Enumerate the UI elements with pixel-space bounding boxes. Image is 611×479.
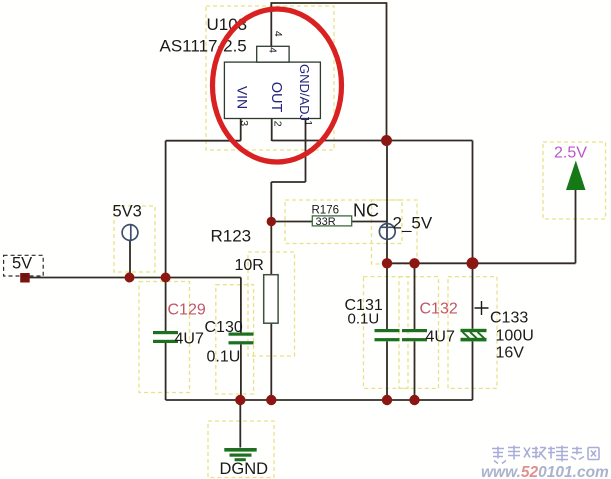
regulator U103 body (224, 46, 320, 118)
wire C132 bottom lead (414, 341, 416, 400)
svg-text:100U: 100U (496, 328, 534, 345)
node ground rail / R123 junction (266, 395, 276, 405)
node B junction R123/R176 (267, 217, 276, 226)
wire VIN horizontal (166, 140, 241, 142)
selection box C129 (139, 282, 190, 393)
wire pin2 stem (271, 119, 273, 142)
wire VIN vertical to 5V rail (165, 141, 167, 278)
wire node A branch down x472 (472, 141, 474, 264)
svg-text:NC: NC (353, 201, 379, 221)
svg-text:AS1117-2.5: AS1117-2.5 (160, 37, 247, 56)
power symbol 2.5V arrow (566, 161, 586, 191)
svg-text:0.1U: 0.1U (207, 349, 241, 366)
node 5V rail / 5V3 junction (125, 273, 135, 283)
wire ADJ step vertical to node B (270, 182, 272, 222)
node 5V rail / VIN junction (161, 273, 171, 283)
svg-text:5V: 5V (12, 255, 32, 273)
svg-text:1: 1 (302, 120, 314, 126)
resistor R176 body (312, 216, 351, 226)
wire 2_5V vertical x387 (386, 141, 388, 264)
svg-text:16V: 16V (496, 345, 525, 362)
svg-text:OUT: OUT (268, 82, 284, 113)
wire 5V rail (30, 277, 241, 279)
selection box 2_5V port (372, 200, 418, 264)
ground DGND (224, 448, 256, 461)
selection box R176 (285, 200, 402, 244)
svg-text:GND/ADJ: GND/ADJ (297, 64, 312, 121)
svg-text:2.5V: 2.5V (554, 145, 587, 162)
wire node A vertical drop (386, 2, 388, 140)
svg-text:0.1U: 0.1U (348, 311, 380, 328)
wire OUT/ADJ horizontal y140 (272, 140, 473, 142)
node A junction pin4/pin1 (381, 135, 392, 146)
wire pin4 stem (270, 2, 272, 46)
wire ground rail y400 (166, 399, 473, 401)
wire pin3 stem (240, 119, 242, 141)
svg-text:4U7: 4U7 (175, 331, 204, 348)
svg-text:10R: 10R (235, 257, 264, 274)
wire DGND stem (239, 400, 241, 448)
selection box R123 (248, 252, 295, 356)
selection box C132 (399, 277, 439, 389)
selection box C131 (364, 277, 409, 389)
selection box 5V3 (114, 206, 155, 272)
wire 2.5V arrow stem (575, 190, 577, 263)
wire R176 right to NC node (352, 221, 387, 223)
wire R123 bottom lead (270, 323, 272, 400)
svg-text:C129: C129 (168, 302, 206, 319)
svg-text:VIN: VIN (235, 86, 251, 109)
power port 2_5V (379, 224, 395, 242)
svg-text:DGND: DGND (220, 460, 269, 478)
watermark chinese text (492, 446, 599, 464)
svg-text:4: 4 (272, 31, 284, 37)
wire pin1 vertical (305, 119, 307, 183)
node ground rail / C132 junction (409, 395, 419, 405)
wire C131 bottom lead (386, 341, 388, 400)
svg-text:C130: C130 (205, 319, 243, 336)
capacitor C133 electrolytic plates (461, 329, 487, 342)
svg-text:R123: R123 (211, 227, 252, 246)
svg-text:4U7: 4U7 (426, 329, 455, 346)
wire C132 top lead (414, 263, 416, 329)
annotation red ellipse (213, 9, 342, 162)
node ground rail / DGND junction (235, 395, 245, 405)
wire R123 top lead (270, 222, 272, 275)
wire ADJ step horizontal (271, 181, 305, 183)
wire 2.5V rail y263 (387, 262, 576, 264)
wire C129 bottom lead (165, 343, 167, 400)
wire top from pin4 to node A (271, 2, 386, 4)
selection box C130 (216, 285, 254, 394)
svg-text:R176: R176 (312, 205, 340, 217)
svg-text:www.520101.com: www.520101.com (481, 464, 609, 479)
capacitor C132 plates (402, 329, 427, 341)
wire 5V3 stem (129, 241, 131, 278)
capacitor C130 plates (229, 333, 254, 345)
wire C130 bottom lead (240, 344, 242, 400)
svg-text:33R: 33R (316, 216, 336, 228)
port 5V input square (20, 273, 30, 283)
node 2.5V rail / C132 junction (409, 258, 419, 268)
node ground rail / C131 junction (382, 395, 392, 405)
svg-text:5V3: 5V3 (113, 203, 142, 221)
node 2.5V rail / C131 junction (382, 258, 392, 268)
selection box 2.5V power arrow (543, 142, 606, 219)
power port 5V3 (122, 225, 138, 241)
svg-text:3: 3 (238, 120, 250, 126)
svg-text:C132: C132 (420, 301, 458, 318)
wire C133 bottom lead (472, 341, 474, 400)
wire C129 top lead (165, 278, 167, 332)
wire node B to R176 left (271, 221, 312, 223)
5V label dashed box (4, 255, 44, 276)
svg-text:2_5V: 2_5V (393, 214, 433, 233)
selection box U103 (206, 6, 334, 150)
selection box C133 (448, 277, 497, 389)
selection box DGND (208, 421, 274, 478)
svg-text:4: 4 (267, 47, 279, 53)
capacitor C131 plates (375, 329, 400, 341)
resistor R123 body (264, 275, 278, 324)
wire C133 top lead (472, 263, 474, 329)
wire C131 top lead (386, 263, 388, 329)
wire 5V rail corner to C130 (240, 278, 242, 333)
node 2.5V rail / C133 junction (467, 257, 479, 269)
svg-text:2: 2 (272, 121, 284, 127)
svg-text:C133: C133 (490, 310, 528, 327)
C133 plus sign (475, 301, 489, 315)
capacitor C129 plates (153, 331, 178, 343)
